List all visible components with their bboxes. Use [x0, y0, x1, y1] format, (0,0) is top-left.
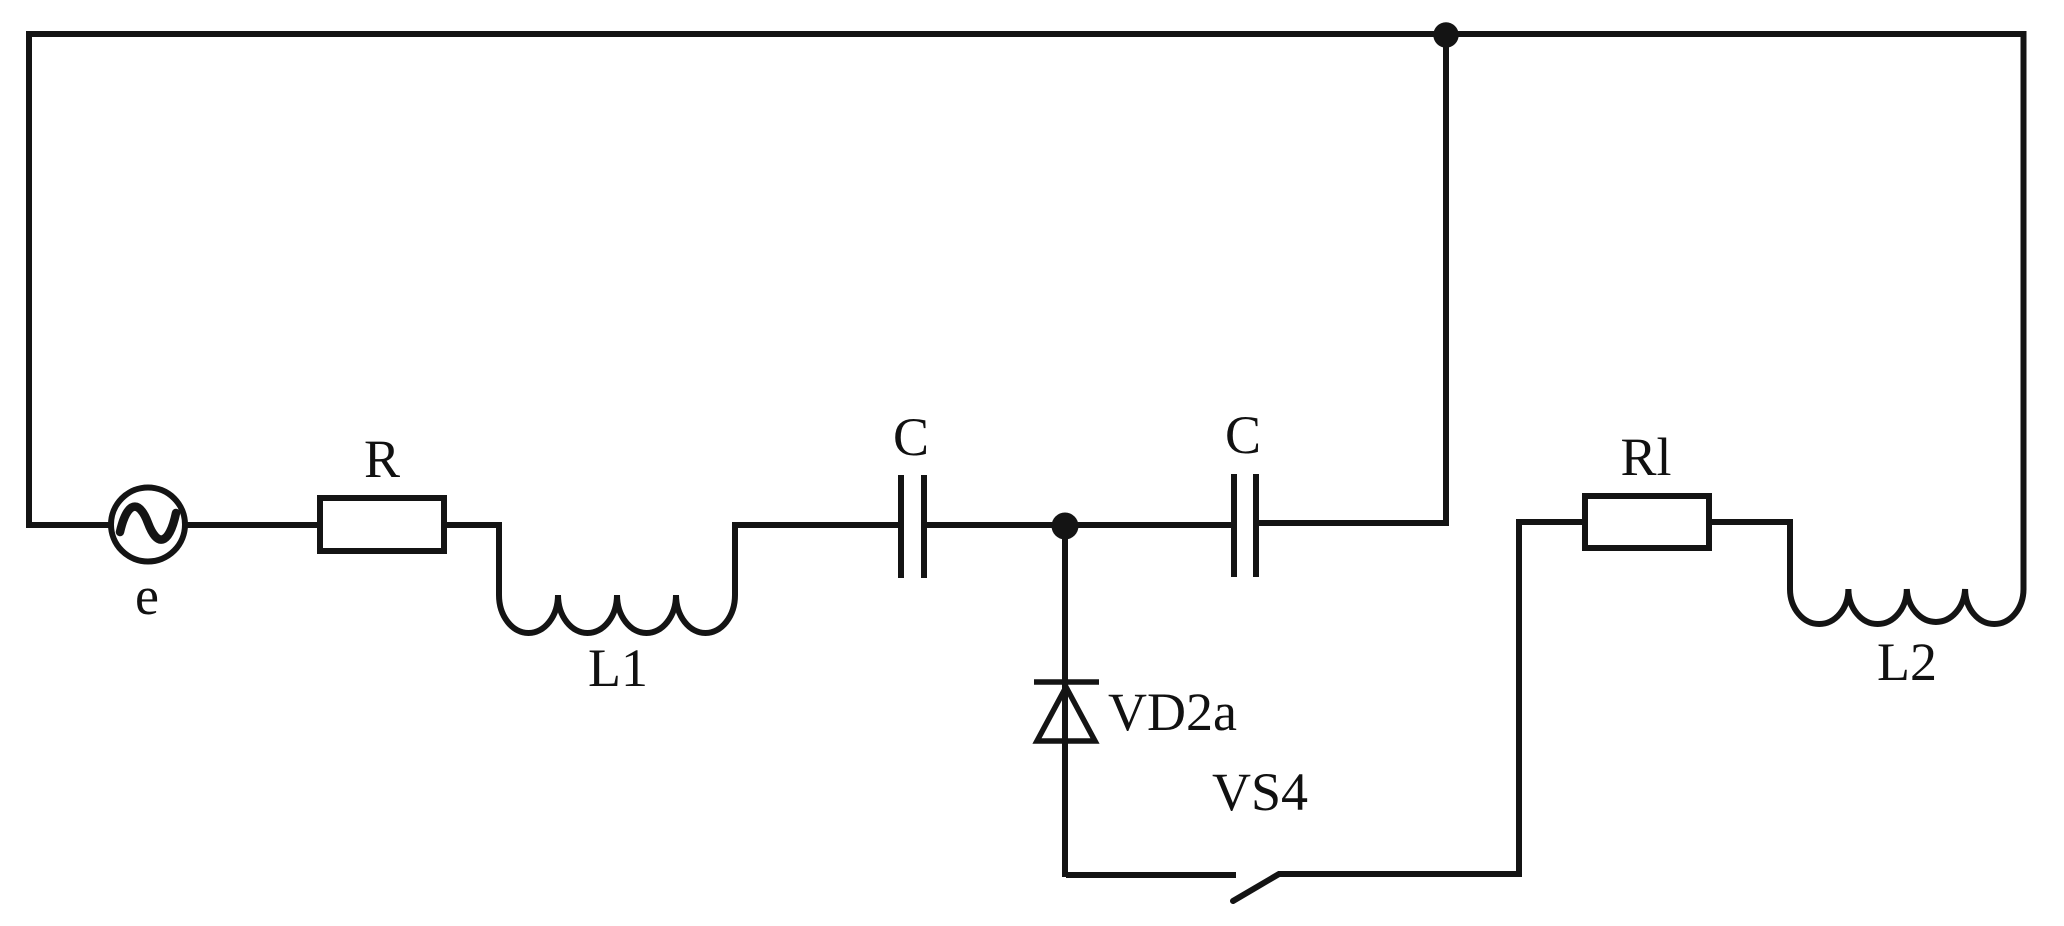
- resistor R: [320, 498, 444, 551]
- capacitor C1 right plate: [921, 475, 927, 578]
- wire bottom-left to source: [26, 522, 112, 528]
- capacitor C2 left plate: [1231, 474, 1237, 577]
- svg-text:R: R: [364, 429, 400, 489]
- svg-text:VS4: VS4: [1212, 762, 1308, 822]
- svg-text:L1: L1: [588, 638, 648, 698]
- node junction dot top: [1433, 22, 1458, 47]
- wire node down through diode to bottom: [1062, 525, 1068, 877]
- wire right-mid vertical up to Rl: [1519, 522, 1585, 877]
- wire bottom right of switch: [1278, 871, 1519, 877]
- svg-text:e: e: [135, 566, 159, 626]
- source e circle U1: [111, 488, 185, 562]
- svg-text:L2: L2: [1877, 632, 1937, 692]
- capacitor C2 right plate: [1253, 474, 1259, 577]
- wire left vertical: [26, 31, 32, 525]
- resistor Rl: [1585, 496, 1709, 548]
- node junction dot mid: [1052, 513, 1079, 540]
- wire Rl to L2 corner: [1709, 522, 1790, 589]
- inductor L2: [1790, 589, 2024, 624]
- wire node to C2: [1065, 522, 1231, 528]
- wire C2 right then up to top junction: [1259, 33, 1446, 523]
- svg-text:C: C: [893, 407, 929, 467]
- wire right vertical up to top: [2021, 31, 2027, 589]
- wire top horizontal: [29, 31, 2024, 37]
- wire R to L1 corner: [444, 525, 499, 595]
- capacitor C1 left plate: [898, 475, 904, 578]
- switch VS4 lever: [1233, 874, 1279, 901]
- wire C1 to node: [927, 522, 1065, 528]
- inductor L1: [499, 595, 735, 633]
- wire source to R: [185, 522, 320, 528]
- svg-text:Rl: Rl: [1620, 427, 1671, 487]
- svg-text:VD2a: VD2a: [1108, 682, 1237, 742]
- wire L1 up to main line: [735, 525, 898, 595]
- source e sine wave: [120, 507, 176, 540]
- diode VD2a cathode bar: [1034, 679, 1099, 685]
- svg-text:C: C: [1225, 405, 1261, 465]
- diode VD2a triangle: [1037, 687, 1095, 741]
- wire bottom left of switch: [1066, 872, 1236, 878]
